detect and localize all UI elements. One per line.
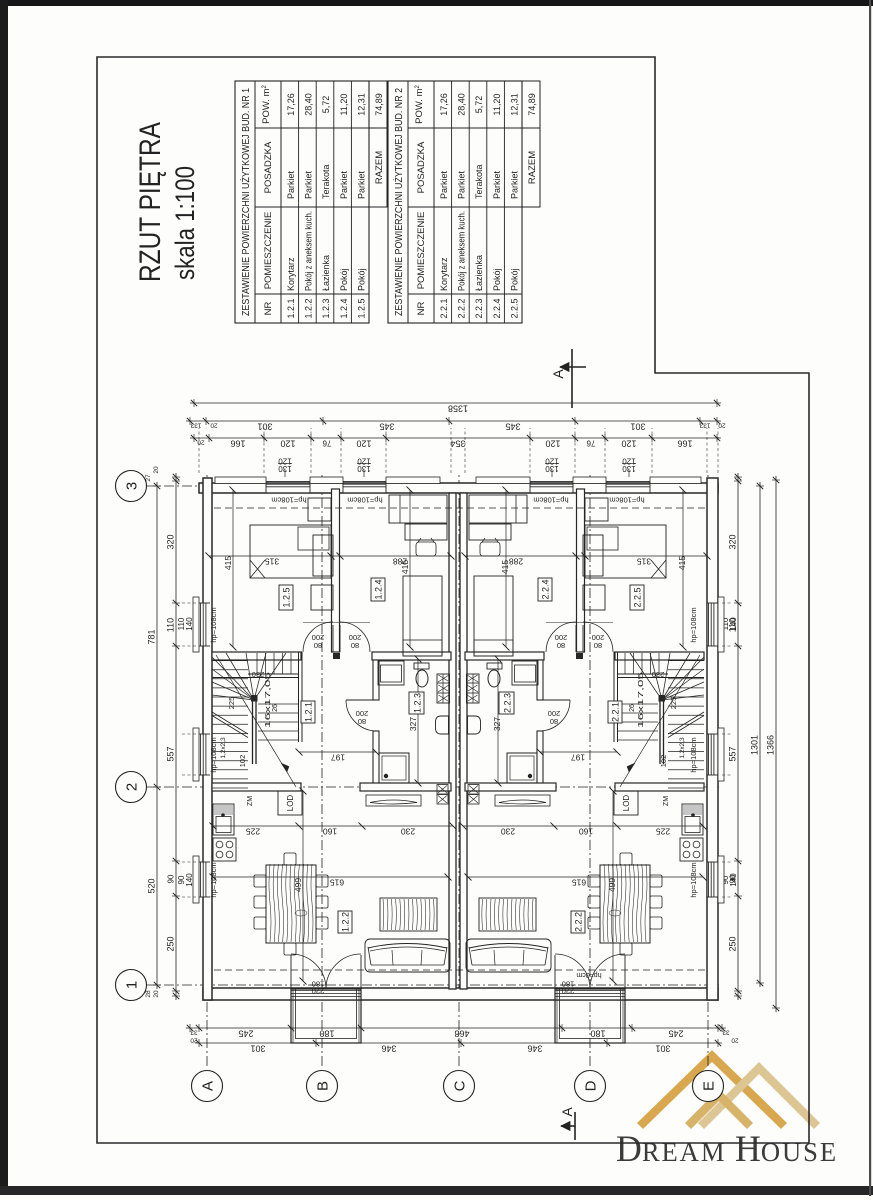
svg-text:hp=108cm: hp=108cm	[689, 607, 698, 642]
dimension chain balcony doors	[186, 1027, 726, 1029]
svg-text:225: 225	[246, 827, 260, 837]
svg-text:74,89: 74,89	[374, 93, 384, 116]
svg-text:1.2.5: 1.2.5	[356, 298, 366, 318]
bathroom wall along corridor	[373, 731, 379, 791]
svg-text:E: E	[701, 1081, 718, 1091]
svg-text:Pokój: Pokój	[356, 268, 366, 291]
svg-text:230: 230	[652, 670, 665, 679]
svg-text:180: 180	[319, 1029, 334, 1039]
svg-text:hp=108cm: hp=108cm	[347, 496, 382, 505]
laundry squares	[437, 795, 448, 805]
svg-text:12,31: 12,31	[509, 93, 519, 116]
svg-text:468: 468	[454, 1029, 469, 1039]
svg-text:327: 327	[408, 717, 418, 731]
svg-text:Pokój: Pokój	[339, 268, 349, 291]
chair bedroom B	[416, 542, 436, 556]
svg-text:11,20: 11,20	[339, 94, 349, 116]
svg-text:345: 345	[505, 422, 520, 432]
svg-text:LOD: LOD	[622, 795, 631, 812]
svg-text:DREAM HOUSE: DREAM HOUSE	[616, 1129, 838, 1170]
svg-text:2: 2	[124, 783, 141, 791]
svg-text:327: 327	[492, 717, 502, 731]
table zestawienie powierzchni BUD. NR 1	[235, 81, 369, 323]
svg-text:LOD: LOD	[286, 795, 295, 812]
svg-text:1358: 1358	[448, 404, 468, 414]
svg-text:2.2.4: 2.2.4	[492, 298, 502, 318]
svg-text:Terakota: Terakota	[474, 164, 484, 199]
axis bubble 3	[116, 471, 147, 502]
svg-text:Pokój z aneksem kuch.: Pokój z aneksem kuch.	[304, 211, 314, 291]
svg-text:615: 615	[330, 878, 344, 888]
svg-text:197: 197	[571, 753, 585, 763]
svg-text:320: 320	[166, 534, 176, 549]
exterior wall top	[203, 478, 212, 1000]
svg-text:200: 200	[356, 709, 369, 718]
svg-text:220: 220	[312, 987, 325, 996]
svg-text:120: 120	[545, 439, 560, 449]
svg-text:skala 1:100: skala 1:100	[170, 166, 200, 280]
svg-text:781: 781	[147, 629, 157, 644]
toilet	[414, 663, 429, 669]
wall bathroom/living	[360, 783, 451, 791]
svg-text:26: 26	[272, 704, 279, 712]
exterior wall left (balcony side)	[203, 988, 718, 1000]
logo roof chevron left (gold)	[640, 1056, 784, 1126]
svg-text:ZESTAWIENIE POWIERZCHNI UŻYTKO: ZESTAWIENIE POWIERZCHNI UŻYTKOWEJ BUD. N…	[392, 88, 405, 316]
door arc bedroom A	[332, 625, 334, 652]
svg-text:hp=0cm: hp=0cm	[576, 971, 601, 978]
section mark A left	[574, 1112, 576, 1140]
door jamb stub	[333, 653, 340, 659]
dimension chain bottom spacing 301/346	[195, 1042, 722, 1044]
svg-text:RAZEM: RAZEM	[374, 151, 385, 184]
windows in bottom exterior wall	[708, 862, 718, 897]
svg-text:288: 288	[509, 557, 523, 567]
svg-text:Parkiet: Parkiet	[457, 170, 467, 199]
svg-text:20: 20	[153, 466, 160, 474]
extension lines to chains	[198, 428, 200, 473]
svg-text:415: 415	[400, 560, 410, 574]
axis bubble C	[444, 1071, 475, 1102]
svg-text:Łazienka: Łazienka	[474, 255, 484, 291]
axis line 1	[146, 984, 722, 986]
svg-text:NR: NR	[416, 302, 427, 316]
svg-text:2.2.2: 2.2.2	[574, 912, 584, 932]
svg-text:28: 28	[145, 990, 152, 998]
svg-text:ZM: ZM	[247, 796, 254, 806]
svg-text:Łazienka: Łazienka	[321, 255, 331, 291]
svg-text:166: 166	[677, 439, 692, 449]
svg-text:hp=108cm: hp=108cm	[689, 737, 698, 772]
axis line A	[206, 474, 208, 1066]
axis line D	[589, 474, 591, 1066]
svg-text:2.2.5: 2.2.5	[633, 587, 643, 607]
svg-text:120: 120	[356, 439, 371, 449]
svg-text:1,2x2,3: 1,2x2,3	[679, 737, 686, 759]
second bed bedroom B	[403, 576, 442, 656]
svg-text:120: 120	[280, 439, 295, 449]
nightstand	[308, 498, 331, 521]
svg-text:POSADZKA: POSADZKA	[263, 141, 274, 193]
bidet	[436, 716, 449, 734]
svg-text:hp=108cm: hp=108cm	[689, 862, 698, 897]
svg-text:D: D	[583, 1080, 600, 1091]
radiator	[366, 795, 421, 806]
balcony door openings left wall	[291, 990, 361, 1000]
svg-text:hp=108cm: hp=108cm	[271, 496, 306, 505]
svg-text:hp=108cm: hp=108cm	[609, 496, 644, 505]
svg-text:20: 20	[197, 439, 205, 446]
svg-text:hp=108cm: hp=108cm	[209, 862, 218, 897]
svg-text:Korytarz: Korytarz	[439, 257, 449, 291]
svg-text:120: 120	[621, 439, 636, 449]
svg-text:200: 200	[548, 709, 561, 718]
svg-text:1: 1	[124, 981, 141, 989]
room dim line bedrooms unit 2	[465, 555, 707, 557]
svg-text:133: 133	[190, 422, 201, 429]
svg-text:B: B	[315, 1081, 332, 1091]
svg-text:17,26: 17,26	[286, 93, 296, 116]
chairs	[254, 917, 266, 929]
svg-text:2.2.4: 2.2.4	[541, 579, 551, 599]
svg-text:166: 166	[230, 439, 245, 449]
svg-text:102: 102	[659, 755, 668, 768]
svg-text:245: 245	[238, 1029, 253, 1039]
svg-text:160: 160	[323, 827, 337, 837]
attic height dashed line near right wall	[214, 507, 705, 509]
living dims unit 1	[213, 876, 448, 878]
svg-text:hp=108cm: hp=108cm	[533, 496, 568, 505]
svg-text:NR: NR	[263, 302, 274, 316]
svg-text:354: 354	[450, 439, 465, 449]
svg-text:1.2.1: 1.2.1	[286, 298, 296, 318]
scan artifact: right edge line	[869, 0, 871, 1196]
fridge	[278, 791, 302, 815]
svg-text:Parkiet: Parkiet	[492, 170, 502, 199]
svg-text:197: 197	[331, 753, 345, 763]
svg-text:Parkiet: Parkiet	[356, 170, 366, 199]
axis bubble 2	[116, 772, 147, 803]
svg-text:160: 160	[579, 827, 593, 837]
axis line B	[321, 474, 323, 1066]
shower	[379, 753, 409, 783]
svg-text:301: 301	[257, 422, 272, 432]
logo roof chevron front small (tan)	[688, 1095, 750, 1126]
svg-text:Parkiet: Parkiet	[286, 170, 296, 199]
svg-text:225: 225	[669, 697, 678, 710]
interior wall between bedrooms	[332, 489, 340, 652]
axis bubble B	[307, 1071, 338, 1102]
axis bubble E	[693, 1071, 724, 1102]
balcony unit 2	[555, 989, 625, 1043]
svg-text:499: 499	[293, 878, 303, 892]
svg-text:1.2.1: 1.2.1	[304, 702, 314, 722]
logo roof chevron right (pale gold)	[701, 1068, 817, 1126]
svg-text:225: 225	[227, 697, 236, 710]
svg-text:12,31: 12,31	[356, 93, 366, 116]
svg-text:27: 27	[145, 474, 152, 482]
axis bubble A	[192, 1071, 223, 1102]
dimension chain overall 1366	[775, 476, 777, 1012]
svg-text:ZM: ZM	[663, 796, 670, 806]
axis line 2	[146, 786, 722, 788]
svg-text:315: 315	[637, 557, 651, 567]
svg-text:16x17,05: 16x17,05	[638, 672, 645, 728]
svg-text:26: 26	[629, 704, 636, 712]
svg-text:POSADZKA: POSADZKA	[416, 141, 427, 193]
svg-text:hp=108cm: hp=108cm	[209, 737, 218, 772]
svg-text:RZUT PIĘTRA: RZUT PIĘTRA	[134, 122, 167, 282]
svg-text:180: 180	[590, 1029, 605, 1039]
dimension chain bottom wall openings	[737, 473, 739, 1000]
svg-text:133: 133	[699, 422, 710, 429]
svg-text:110: 110	[166, 618, 176, 632]
svg-text:220: 220	[562, 987, 575, 996]
svg-text:A: A	[559, 1107, 575, 1117]
svg-text:301: 301	[250, 1044, 265, 1054]
mirrored unit 2 geometry	[465, 489, 704, 989]
svg-text:301: 301	[630, 422, 645, 432]
svg-text:345: 345	[379, 422, 394, 432]
kitchen chain unit 1	[213, 825, 453, 827]
exterior wall right (street side)	[199, 483, 718, 493]
svg-text:557: 557	[166, 746, 176, 761]
svg-text:2.2.3: 2.2.3	[503, 693, 513, 713]
staircase	[212, 787, 248, 789]
svg-text:140: 140	[729, 617, 738, 631]
svg-text:POW. m2: POW. m2	[261, 84, 272, 123]
attic height dashed line near left wall	[214, 969, 705, 971]
side table bedroom A	[313, 535, 333, 576]
svg-text:1366: 1366	[766, 735, 776, 755]
svg-text:557: 557	[728, 746, 738, 761]
svg-text:200: 200	[592, 633, 605, 642]
svg-text:Pokój: Pokój	[492, 268, 502, 291]
table zestawienie powierzchni BUD. NR 2	[388, 81, 522, 323]
svg-text:615: 615	[572, 878, 586, 888]
exterior wall bottom	[707, 478, 718, 1000]
door arc bedroom B	[339, 625, 341, 652]
axis line 3	[146, 485, 722, 487]
washbasin	[378, 661, 404, 685]
svg-text:415: 415	[677, 556, 687, 570]
svg-text:1.2.4: 1.2.4	[374, 579, 384, 599]
svg-text:200: 200	[349, 633, 362, 642]
balcony french door arcs	[290, 955, 292, 989]
svg-text:230: 230	[501, 827, 515, 837]
svg-text:200: 200	[555, 633, 568, 642]
svg-text:C: C	[452, 1080, 469, 1091]
svg-text:A: A	[200, 1081, 217, 1091]
svg-text:RAZEM: RAZEM	[527, 151, 538, 184]
svg-text:200: 200	[312, 633, 325, 642]
svg-text:16x17,05: 16x17,05	[265, 672, 272, 728]
axis bubble 1	[116, 970, 147, 1001]
svg-text:28,40: 28,40	[457, 93, 467, 116]
svg-text:hp=108cm: hp=108cm	[209, 607, 218, 642]
svg-text:230: 230	[401, 827, 415, 837]
stove	[213, 838, 236, 861]
svg-text:33: 33	[722, 1029, 730, 1036]
facade sill bands right wall	[215, 477, 266, 484]
svg-text:1.2.2: 1.2.2	[341, 912, 351, 932]
dimension chain top wall openings	[175, 473, 177, 1000]
room labels unit 1	[279, 585, 293, 610]
svg-text:225: 225	[656, 827, 670, 837]
svg-text:Parkiet: Parkiet	[339, 170, 349, 199]
svg-text:Parkiet: Parkiet	[439, 170, 449, 199]
svg-text:2.2.1: 2.2.1	[439, 298, 449, 318]
door arc bathroom	[346, 699, 376, 701]
corridor dim 197 unit 2	[540, 751, 617, 753]
tv sideboard	[380, 898, 437, 931]
dining table	[266, 865, 316, 943]
room labels unit 2	[630, 585, 644, 610]
svg-text:1.2.3: 1.2.3	[413, 693, 423, 713]
dimension chain axis spacing 301/345	[186, 420, 721, 422]
svg-text:315: 315	[265, 557, 279, 567]
interior wall corridor/stairs	[212, 652, 301, 660]
svg-text:A: A	[550, 369, 566, 379]
svg-text:1301: 1301	[750, 735, 760, 755]
axis bubble D	[575, 1071, 606, 1102]
svg-text:102: 102	[238, 755, 247, 768]
section mark A right	[571, 349, 573, 408]
windows in top exterior wall	[200, 862, 210, 897]
wall kitchen/stairhall	[212, 783, 301, 791]
svg-text:28,40: 28,40	[304, 93, 314, 116]
svg-text:230: 230	[252, 670, 265, 679]
svg-text:74,89: 74,89	[527, 93, 537, 116]
party wall between units	[449, 493, 456, 989]
corridor dim 197 unit 1	[299, 751, 376, 753]
scan artifact: left black bar	[0, 0, 8, 1191]
living dims unit 2	[468, 876, 703, 878]
svg-text:346: 346	[381, 1044, 396, 1054]
svg-text:346: 346	[527, 1044, 542, 1054]
svg-text:250: 250	[166, 936, 176, 951]
svg-text:POMIESZCZENIE: POMIESZCZENIE	[263, 212, 274, 290]
svg-text:76: 76	[586, 439, 595, 448]
svg-text:320: 320	[728, 534, 738, 549]
svg-text:20: 20	[153, 990, 160, 998]
svg-text:2.2.3: 2.2.3	[474, 298, 484, 318]
svg-text:250: 250	[728, 936, 738, 951]
kitchen chain unit 2	[463, 825, 703, 827]
svg-text:ZESTAWIENIE POWIERZCHNI UŻYTKO: ZESTAWIENIE POWIERZCHNI UŻYTKOWEJ BUD. N…	[239, 88, 252, 316]
svg-text:33: 33	[190, 1029, 198, 1036]
balcony unit 1	[291, 989, 361, 1043]
svg-text:20: 20	[731, 1037, 739, 1044]
svg-text:Parkiet: Parkiet	[509, 170, 519, 199]
dimension chain left axis 781/520	[156, 482, 158, 989]
svg-text:Terakota: Terakota	[321, 164, 331, 199]
kitchen counter sink	[213, 804, 234, 835]
svg-text:90: 90	[167, 874, 176, 883]
dimension chain overall 1358	[190, 402, 721, 404]
double bed bedroom A	[250, 525, 331, 578]
svg-text:Parkiet: Parkiet	[304, 170, 314, 199]
bed bedroom B	[389, 495, 447, 523]
svg-text:76: 76	[322, 439, 331, 448]
dimension chain window spacing	[190, 437, 721, 439]
svg-text:POW. m2: POW. m2	[414, 84, 425, 123]
svg-text:20: 20	[210, 422, 218, 429]
svg-text:140: 140	[729, 873, 738, 887]
svg-text:2.2.1: 2.2.1	[611, 702, 621, 722]
svg-text:Pokój z aneksem kuch.: Pokój z aneksem kuch.	[457, 211, 467, 291]
scan artifact: top black bar	[0, 0, 873, 6]
svg-text:1.2.2: 1.2.2	[304, 298, 314, 318]
windows in right exterior wall	[266, 484, 310, 492]
svg-text:1.2.3: 1.2.3	[321, 298, 331, 318]
svg-text:Korytarz: Korytarz	[286, 257, 296, 291]
svg-text:20: 20	[718, 422, 726, 429]
svg-text:3: 3	[124, 482, 141, 490]
svg-text:5,72: 5,72	[321, 96, 331, 114]
dimension chain 1301	[759, 482, 761, 987]
interior wall corridor/bathroom side	[372, 652, 451, 660]
svg-text:1,2x2,3: 1,2x2,3	[220, 737, 227, 759]
svg-text:245: 245	[668, 1029, 683, 1039]
svg-text:1.2.4: 1.2.4	[339, 298, 349, 318]
room dim line bedrooms unit 1	[209, 555, 451, 557]
svg-text:301: 301	[655, 1044, 670, 1054]
svg-text:Pokój: Pokój	[509, 268, 519, 291]
axis line E	[707, 474, 709, 1066]
svg-text:2.2.5: 2.2.5	[509, 298, 519, 318]
desk bedroom B	[405, 524, 447, 540]
svg-text:2.2.2: 2.2.2	[457, 298, 467, 318]
svg-text:11,20: 11,20	[492, 94, 502, 116]
drawing sheet frame	[97, 57, 809, 1143]
svg-text:5,72: 5,72	[474, 96, 484, 114]
washer dryer	[437, 674, 450, 703]
axis line C	[458, 474, 460, 1066]
svg-text:520: 520	[147, 878, 157, 893]
scan artifact: bottom black bar	[0, 1186, 873, 1195]
sofa	[365, 939, 450, 972]
svg-text:499: 499	[607, 878, 617, 892]
svg-text:POMIESZCZENIE: POMIESZCZENIE	[416, 212, 427, 290]
svg-text:1.2.5: 1.2.5	[282, 587, 292, 607]
door leaf tip line	[303, 622, 370, 624]
svg-text:17,26: 17,26	[439, 93, 449, 116]
dresser	[311, 585, 333, 610]
svg-text:415: 415	[500, 560, 510, 574]
svg-text:415: 415	[223, 556, 233, 570]
